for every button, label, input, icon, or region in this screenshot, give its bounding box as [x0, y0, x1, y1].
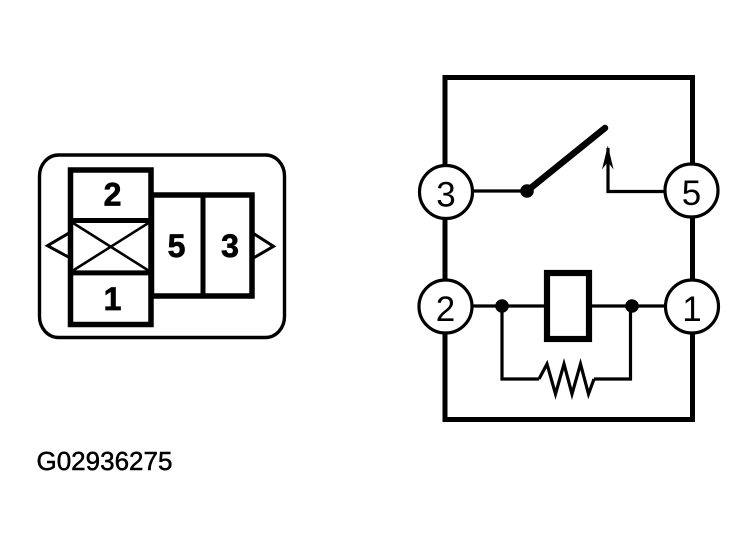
svg-text:2: 2 — [104, 177, 122, 213]
switch blade — [527, 128, 605, 191]
schematic outer wiring loop — [445, 78, 693, 420]
right keyway chevron — [254, 234, 274, 259]
relay connector outline (rounded rectangle) — [40, 155, 285, 338]
switch junction dot — [520, 184, 534, 198]
svg-text:3: 3 — [221, 228, 239, 264]
divider above pin 1 cavity — [68, 270, 154, 275]
svg-text:1: 1 — [104, 281, 122, 317]
pin 2 circle — [419, 280, 472, 333]
coil junction dot left — [495, 299, 509, 313]
switch arrowhead — [602, 146, 614, 170]
svg-text:5: 5 — [682, 174, 701, 213]
relay coil box — [547, 273, 589, 339]
resistor branch right riser — [594, 306, 631, 379]
divider between 5 and 3 cavities — [201, 195, 206, 296]
wire pin2 to coil — [446, 304, 547, 307]
svg-text:1: 1 — [682, 290, 701, 329]
svg-text:5: 5 — [168, 228, 186, 264]
divider under pin 2 cavity — [68, 218, 154, 223]
wire coil to pin1 — [589, 304, 692, 307]
pin 5 circle — [665, 164, 718, 217]
terminal box for pins 5 and 3 — [152, 195, 253, 296]
pin 3 circle — [420, 166, 473, 219]
wire arrow corner to pin5 — [608, 148, 666, 192]
svg-text:G02936275: G02936275 — [37, 446, 173, 476]
resistor branch left riser — [502, 306, 539, 379]
svg-text:3: 3 — [436, 176, 455, 215]
svg-text:2: 2 — [436, 290, 455, 329]
keyway X cross line 1 — [72, 222, 151, 272]
left keyway chevron — [48, 233, 69, 257]
connector terminal column box (pins 2 / X / 1) — [71, 170, 152, 325]
wire pin3 to switch junction — [446, 189, 527, 192]
resistor zigzag — [539, 364, 594, 394]
pin 1 circle — [666, 280, 719, 333]
keyway X cross line 2 — [72, 222, 151, 272]
coil junction dot right — [625, 299, 639, 313]
